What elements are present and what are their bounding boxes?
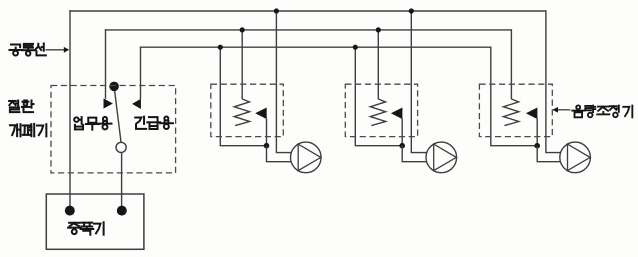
amplifier terminal right [117,206,127,216]
contact 긴급용 (left-pointing) [132,99,141,109]
wiper arrow of attenuator 3 [526,108,538,146]
junction dot L1/block1 [274,8,279,13]
label 절환 [9,100,33,112]
label 개폐기 [10,124,46,136]
contact 업무용 (right-pointing) [104,98,113,108]
label 음량조정기 with arrow [552,105,632,117]
wire bus L3 (긴급용 line) [140,46,491,48]
wire wiper node to speaker SP2 lower terminal [402,146,427,162]
resistor R2 (attenuator element) [370,99,385,126]
wire L1 branch to speaker SP2 upper terminal [411,10,427,152]
wiper arrow of attenuator 2 [391,108,403,146]
junction dot L1/block2 [409,8,414,13]
wire L2 drop to 업무용 contact [105,29,107,99]
switch box 절환개폐기 (dashed) [51,86,176,173]
wire bus L1 (top common feed) [69,10,546,12]
amplifier box 증폭기 [46,194,144,249]
wire wiper node to speaker SP3 lower terminal [537,146,560,162]
wire wiper node to speaker SP1 lower terminal [267,146,292,162]
speaker SP2 [426,142,457,173]
wire pivot to amplifier [121,152,123,207]
label 공통선 [9,43,45,55]
wire L1 branch to speaker SP3 upper terminal [546,10,561,152]
wire L2 branch to attenuator R2 [377,29,379,99]
wiper arrow of attenuator 1 [255,108,267,146]
node 공통선 arrow [46,47,70,53]
resistor R3 (attenuator element) [503,99,518,126]
switch pole dot [109,82,119,92]
junction dot L3/block2 [353,45,358,50]
wire common line drop to amplifier [69,10,71,207]
junction dot L2/block1 [240,27,245,32]
attenuator box 1 (dashed) [211,84,283,136]
wire bus L2 (업무용 line) [105,29,512,31]
speaker SP3 [560,142,591,173]
wire L2 branch to attenuator R1 [241,29,243,99]
speaker SP1 [291,142,322,173]
wire L3 branch to block 2 bypass [355,47,402,146]
junction dot L3/block1 [218,45,223,50]
wire L1 branch to speaker SP1 upper terminal [276,10,291,152]
switch SW lever [114,86,121,142]
junction node wiper/speaker block 2 [399,143,405,149]
junction dot L2/block2 [376,27,381,32]
label 업무용 [74,117,111,130]
attenuator box 2 (dashed) [345,84,417,136]
wire L3 drop to 긴급용 contact [140,47,142,100]
wire L3 branch to block 1 bypass [220,47,266,146]
junction node wiper/speaker block 3 [534,143,540,149]
label 증폭기 [68,222,104,235]
wire L2 branch to attenuator R3 [510,29,512,99]
label 긴급용 [135,117,173,129]
attenuator box 3 (dashed) [479,84,552,136]
wire L3 branch to block 3 bypass [491,47,537,146]
amplifier terminal left [65,206,75,216]
switch pivot circle [116,142,126,152]
resistor R1 (attenuator element) [234,99,249,126]
junction node wiper/speaker block 1 [264,143,270,149]
